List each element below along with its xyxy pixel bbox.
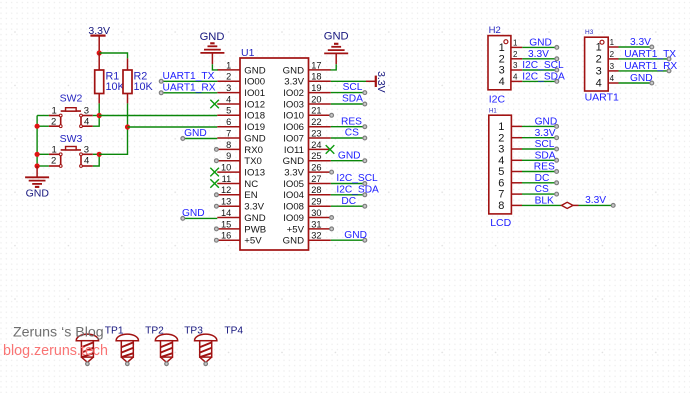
H2 pin1 indicator <box>504 40 508 44</box>
wire jumper to net 3.3V <box>579 204 616 208</box>
SW2 pin number 1 <box>52 106 57 117</box>
U1 pin 31 open end <box>330 227 334 231</box>
svg-text:GND: GND <box>244 213 265 224</box>
svg-text:UART1_TX: UART1_TX <box>624 49 676 60</box>
net label I2C_SCL (H2 pin 3) <box>522 60 564 71</box>
U1 pin 6 (IO19) <box>217 117 265 133</box>
svg-text:1: 1 <box>226 60 231 70</box>
svg-text:3: 3 <box>226 83 231 93</box>
wire U1 pin 22 to net RES <box>331 125 367 129</box>
U1 pin 12 (EN) <box>217 185 257 201</box>
svg-text:GND: GND <box>535 117 558 128</box>
svg-text:IO00: IO00 <box>244 77 265 88</box>
svg-text:7: 7 <box>226 128 231 138</box>
wire GND to U1 pin1 <box>212 64 217 70</box>
SW3 pin number 2 <box>51 155 56 166</box>
svg-text:17: 17 <box>311 60 321 70</box>
svg-text:3.3V: 3.3V <box>528 49 549 60</box>
svg-text:IO11: IO11 <box>284 145 304 156</box>
svg-text:RES: RES <box>341 116 362 127</box>
U1 pin 30 open end <box>330 216 334 220</box>
svg-text:1: 1 <box>610 38 615 47</box>
U1 pin 17 (GND) <box>283 60 331 76</box>
svg-text:2: 2 <box>498 132 504 144</box>
U1 pin 26 (3.3V) <box>284 163 331 179</box>
svg-text:IO18: IO18 <box>244 111 265 122</box>
net label I2C_SDA (U1 pin 28) <box>336 184 379 195</box>
svg-text:GND: GND <box>283 236 304 247</box>
H1 pin 1 <box>498 121 522 133</box>
svg-text:GND: GND <box>529 38 552 49</box>
designator TP2 <box>145 325 164 336</box>
wire net GND to U1 pin7 <box>181 137 217 141</box>
wire H2 pin 1 to net GND <box>522 46 558 50</box>
net label 3.3V (H1 pin 8) <box>585 195 606 206</box>
svg-text:GND: GND <box>182 208 205 219</box>
U1 pin 5 (IO18) <box>217 106 265 122</box>
U1 pin 1 (GND) <box>217 60 265 76</box>
U1 pin 26 open end <box>330 170 334 174</box>
U1 pin 16 (+5V) <box>217 231 262 247</box>
svg-text:32: 32 <box>311 231 321 241</box>
wire R2 bottom to node B <box>127 103 129 127</box>
svg-text:1: 1 <box>498 121 504 133</box>
svg-text:15: 15 <box>221 219 231 229</box>
wire SW2 pin4 riser <box>93 116 99 127</box>
wire H1 pin 3 to net SCL <box>522 147 558 151</box>
wire H3 pin 3 to net UART1_RX <box>619 69 671 73</box>
svg-text:IO08: IO08 <box>283 202 304 213</box>
svg-text:+5V: +5V <box>287 224 305 235</box>
svg-text:IO12: IO12 <box>244 99 265 110</box>
H1 pin 8 <box>498 200 522 212</box>
wire U1 pin 20 to net SDA <box>331 102 367 106</box>
net label UART1_TX (U1 pin2) <box>163 71 215 82</box>
U1 pin 9 open end <box>215 159 219 163</box>
svg-text:10: 10 <box>221 163 231 173</box>
svg-text:3: 3 <box>513 61 518 70</box>
svg-text:DC: DC <box>535 173 550 184</box>
label LCD (H1) <box>490 217 511 229</box>
wire net UART1_RX to U1 pin3 <box>159 91 217 95</box>
wire H1 pin 4 to net SDA <box>522 158 558 162</box>
svg-text:PWB: PWB <box>244 224 266 235</box>
designator TP1 <box>105 325 124 336</box>
jumper/diamond on BLK net <box>562 202 579 208</box>
U1 pin 4 (IO12) <box>217 94 265 110</box>
H1 pin 7 <box>498 189 522 201</box>
junction left bus / SW3 pin2 <box>35 163 40 168</box>
net label 3.3V (H1 pin 2) <box>535 128 556 139</box>
text blog.zeruns.tech <box>3 343 108 359</box>
wire H1 pin 6 to net DC <box>522 181 558 185</box>
svg-text:4: 4 <box>610 74 615 83</box>
svg-text:30: 30 <box>311 208 321 218</box>
svg-text:IO02: IO02 <box>283 88 304 99</box>
net label SDA (U1 pin 20) <box>342 94 363 105</box>
designator H1 <box>489 109 497 115</box>
svg-text:4: 4 <box>84 155 89 166</box>
svg-text:NC: NC <box>244 179 258 190</box>
svg-text:IO05: IO05 <box>283 179 304 190</box>
SW3 pin number 1 <box>52 144 57 155</box>
svg-text:8: 8 <box>226 140 231 150</box>
test point TP2 <box>116 334 138 366</box>
switch SW3 <box>49 147 93 168</box>
connector H2 body <box>488 36 511 90</box>
U1 pin 31 (+5V) <box>287 219 331 235</box>
svg-text:20: 20 <box>311 94 321 104</box>
wire H2 pin 3 to net I2C_SCL <box>522 68 558 72</box>
svg-text:29: 29 <box>311 197 321 207</box>
svg-text:23: 23 <box>311 128 321 138</box>
svg-text:26: 26 <box>311 163 321 173</box>
wire 3.3V node to R2 top <box>99 53 127 58</box>
net label I2C_SDA (H2 pin 4) <box>522 72 565 83</box>
net label SDA (H1 pin 4) <box>535 150 556 161</box>
svg-text:I2C_SCL: I2C_SCL <box>522 60 564 71</box>
svg-text:3: 3 <box>84 144 89 155</box>
U1 pin 23 (IO07) <box>283 128 331 144</box>
U1 pin 16 open end <box>215 238 219 242</box>
net label I2C_SCL (U1 pin 27) <box>336 173 378 184</box>
U1 pin 25 (GND) <box>283 151 331 167</box>
wire net UART1_TX to U1 pin2 <box>159 79 217 83</box>
net label GND (U1 pin7) <box>184 128 207 139</box>
wire node B to U1 pin6 <box>128 126 218 128</box>
svg-text:GND: GND <box>338 150 361 161</box>
svg-text:H3: H3 <box>585 29 594 36</box>
wire H2 pin 4 to net I2C_SDA <box>522 80 558 84</box>
svg-text:GND: GND <box>244 133 265 144</box>
svg-text:IO09: IO09 <box>283 213 304 224</box>
wire U1 pin 32 to net GND <box>331 238 367 242</box>
net label GND (U1 pin 25) <box>338 150 361 161</box>
svg-text:2: 2 <box>610 50 615 59</box>
svg-text:6: 6 <box>498 177 504 189</box>
net label UART1_RX (U1 pin3) <box>163 82 216 93</box>
svg-text:9: 9 <box>226 151 231 161</box>
svg-text:IO07: IO07 <box>283 133 304 144</box>
U1 pin 2 (IO00) <box>217 72 265 88</box>
wire SW3 pin1 to left bus <box>37 153 49 155</box>
svg-text:10K: 10K <box>134 81 154 93</box>
svg-text:SW3: SW3 <box>60 133 83 145</box>
svg-text:24: 24 <box>311 140 321 150</box>
svg-text:H2: H2 <box>489 25 501 36</box>
power flag 3.3V (U1 pin18) <box>366 71 387 93</box>
U1 pin 18 (3.3V) <box>284 72 331 88</box>
svg-text:14: 14 <box>221 208 231 218</box>
no-connect flag U1 pin 10 <box>210 168 219 177</box>
svg-text:1: 1 <box>52 144 57 155</box>
svg-text:2: 2 <box>499 53 505 65</box>
U1 pin 12 open end <box>215 193 219 197</box>
svg-text:7: 7 <box>498 189 504 201</box>
net label SCL (H1 pin 3) <box>535 139 555 150</box>
svg-text:5: 5 <box>226 106 231 116</box>
svg-text:2: 2 <box>51 117 56 128</box>
svg-text:8: 8 <box>498 200 504 212</box>
svg-text:RES: RES <box>534 162 555 173</box>
svg-text:LCD: LCD <box>490 217 511 229</box>
connector H3 body <box>585 37 609 91</box>
U1 pin 3 (IO01) <box>217 83 265 99</box>
svg-text:IO10: IO10 <box>283 111 304 122</box>
net label DC (H1 pin 6) <box>535 173 550 184</box>
svg-text:SCL: SCL <box>535 139 555 150</box>
svg-text:3.3V: 3.3V <box>284 77 304 88</box>
svg-text:UART1: UART1 <box>585 91 619 103</box>
no-connect flag U1 pin 4 <box>210 100 219 109</box>
net label 3.3V (H2 pin 2) <box>528 49 549 60</box>
svg-text:1: 1 <box>499 42 505 54</box>
H1 pin 6 <box>498 177 522 189</box>
svg-text:1: 1 <box>596 42 602 54</box>
svg-text:31: 31 <box>311 219 321 229</box>
U1 pin 21 open end <box>330 113 334 117</box>
net label BLK (H1 pin 8) <box>535 196 554 207</box>
svg-text:SW2: SW2 <box>60 92 83 104</box>
net label SCL (U1 pin 19) <box>343 82 363 93</box>
junction left bus / SW3 pin1 <box>35 152 40 157</box>
test point TP3 <box>155 334 177 366</box>
designator SW2 <box>60 92 83 104</box>
net label GND (H2 pin 1) <box>529 38 552 49</box>
U1 pin 20 (IO03) <box>283 94 331 110</box>
power flag 3.3V (top left) <box>88 25 110 53</box>
svg-text:6: 6 <box>226 117 231 127</box>
wire U1 pin 23 to net CS <box>331 136 367 140</box>
net label RES (H1 pin 5) <box>534 162 555 173</box>
H1 pin 3 <box>498 144 522 156</box>
wire SW2 pin2 to left bus <box>37 125 49 127</box>
H3 pin 1 <box>596 38 619 53</box>
svg-text:1: 1 <box>513 39 518 48</box>
svg-text:GND: GND <box>283 156 304 167</box>
wire H3 pin 2 to net UART1_TX <box>619 57 671 61</box>
svg-text:5: 5 <box>498 166 504 178</box>
svg-text:16: 16 <box>221 231 231 241</box>
svg-text:TX0: TX0 <box>244 156 262 167</box>
switch SW2 <box>49 108 93 128</box>
svg-text:3: 3 <box>596 66 602 78</box>
svg-text:27: 27 <box>311 174 321 184</box>
svg-text:3.3V: 3.3V <box>375 71 387 93</box>
wire U1 pin 27 to net I2C_SCL <box>331 182 367 186</box>
svg-text:GND: GND <box>630 73 653 84</box>
U1 pin 11 (NC) <box>217 174 258 190</box>
svg-text:SDA: SDA <box>342 94 363 105</box>
net label CS (U1 pin 23) <box>345 128 359 139</box>
U1 pin 8 open end <box>215 148 219 152</box>
svg-text:I2C: I2C <box>489 93 506 105</box>
U1 pin 29 (IO08) <box>283 197 331 213</box>
svg-text:3: 3 <box>498 144 504 156</box>
svg-text:13: 13 <box>221 197 231 207</box>
svg-text:3: 3 <box>499 65 505 77</box>
wire H1 pin 8 to jumper <box>522 204 562 206</box>
resistor R1 <box>95 53 104 103</box>
svg-text:+5V: +5V <box>244 236 262 247</box>
U1 pin 22 (IO06) <box>283 117 331 133</box>
net label UART1_RX (H3 pin 3) <box>624 61 677 72</box>
svg-text:CS: CS <box>535 184 549 195</box>
net label GND (U1 pin 32) <box>344 230 367 241</box>
wire U1 pin 28 to net I2C_SDA <box>331 193 367 197</box>
svg-text:3: 3 <box>610 62 615 71</box>
svg-text:18: 18 <box>311 72 321 82</box>
svg-text:21: 21 <box>311 106 321 116</box>
U1 pin 14 (GND) <box>217 208 265 224</box>
U1 pin 19 (IO02) <box>283 83 331 99</box>
designator TP4 <box>224 325 243 336</box>
test point TP1 <box>76 334 98 366</box>
no-connect flag U1 pin 11 <box>210 179 219 188</box>
svg-text:2: 2 <box>226 72 231 82</box>
svg-text:EN: EN <box>244 190 257 201</box>
wire SW3 pin4 riser <box>93 154 99 166</box>
svg-text:GND: GND <box>26 188 50 200</box>
SW3 pin number 3 <box>84 144 89 155</box>
label R2 <box>134 71 148 83</box>
resistor R2 <box>123 58 132 103</box>
svg-text:SDA: SDA <box>535 150 556 161</box>
net label 3.3V (H3 pin 1) <box>630 37 651 48</box>
svg-text:28: 28 <box>311 185 321 195</box>
svg-text:SCL: SCL <box>343 82 363 93</box>
net label CS (H1 pin 7) <box>535 184 549 195</box>
wire SW3 pin3 to node C <box>93 153 99 155</box>
junction node B (R2/U1 pin6) <box>125 124 130 129</box>
svg-text:4: 4 <box>513 73 518 82</box>
U1 pin 9 (TX0) <box>217 151 262 167</box>
svg-text:DC: DC <box>341 196 356 207</box>
svg-text:U1: U1 <box>241 47 255 59</box>
svg-text:I2C_SDA: I2C_SDA <box>522 72 565 83</box>
wire SW2 pin1 to left bus <box>37 115 49 117</box>
svg-text:22: 22 <box>311 117 321 127</box>
wire H2 pin 2 to net 3.3V <box>522 57 558 61</box>
U1 pin 15 (PWB) <box>217 219 266 235</box>
wire net GND to U1 pin14 <box>181 217 217 221</box>
designator TP3 <box>184 325 203 336</box>
svg-text:TP4: TP4 <box>224 325 243 336</box>
wire U1 pin17 to GND <box>330 64 336 70</box>
net label GND (H1 pin 1) <box>535 117 558 128</box>
svg-text:IO01: IO01 <box>244 88 265 99</box>
wire U1 pin 19 to net SCL <box>331 91 367 95</box>
wire U1 pin 29 to net DC <box>331 204 367 208</box>
svg-text:4: 4 <box>84 116 89 127</box>
svg-text:IO19: IO19 <box>244 122 265 133</box>
svg-text:RX0: RX0 <box>244 145 263 156</box>
U1 pin 32 (GND) <box>283 231 331 247</box>
svg-text:4: 4 <box>498 155 504 167</box>
wire H3 pin 4 to net GND <box>619 81 654 85</box>
designator H3 <box>585 29 594 36</box>
svg-text:1: 1 <box>52 106 57 117</box>
U1 pin 8 (RX0) <box>217 140 263 156</box>
SW2 pin number 3 <box>84 106 89 117</box>
designator SW3 <box>60 133 83 145</box>
svg-text:19: 19 <box>311 83 321 93</box>
svg-text:UART1_TX: UART1_TX <box>163 71 215 82</box>
wire H1 pin 1 to net GND <box>522 125 558 129</box>
IC U1 body <box>240 58 309 250</box>
U1 pin 15 open end <box>215 227 219 231</box>
svg-text:GND: GND <box>200 31 225 43</box>
ground GND (above U1 pin17) <box>324 31 349 65</box>
SW3 pin number 4 <box>84 155 89 166</box>
svg-text:3.3V: 3.3V <box>244 202 264 213</box>
svg-text:IO13: IO13 <box>244 168 265 179</box>
H1 pin 5 <box>498 166 522 178</box>
svg-text:IO04: IO04 <box>283 190 304 201</box>
svg-text:H1: H1 <box>489 109 497 115</box>
test point TP4 <box>195 334 217 366</box>
svg-text:4: 4 <box>226 94 231 104</box>
svg-text:UART1_RX: UART1_RX <box>624 61 677 72</box>
svg-text:4: 4 <box>596 78 602 90</box>
svg-text:IO03: IO03 <box>283 99 304 110</box>
svg-text:I2C_SCL: I2C_SCL <box>336 173 378 184</box>
U1 pin 24 (IO11) <box>284 140 331 156</box>
no-connect flag U1 pin 24 <box>326 145 335 154</box>
U1 pin 7 (GND) <box>217 128 265 144</box>
svg-text:CS: CS <box>345 128 359 139</box>
svg-text:12: 12 <box>221 185 231 195</box>
wire U1 pin18 to 3.3V <box>331 80 366 82</box>
U1 pin 21 (IO10) <box>283 106 331 122</box>
svg-text:2: 2 <box>51 155 56 166</box>
wire R1 bottom to node A <box>98 103 100 115</box>
svg-text:2: 2 <box>596 54 602 66</box>
H2 pin 3 <box>499 61 523 76</box>
svg-text:GND: GND <box>344 230 367 241</box>
svg-text:GND: GND <box>244 65 265 76</box>
value 10K (R1) <box>106 81 126 93</box>
wire U1 pin 25 to net GND <box>331 159 367 163</box>
U1 pin 10 (IO13) <box>217 163 265 179</box>
H2 pin 4 <box>499 73 523 88</box>
svg-text:2: 2 <box>513 50 518 59</box>
wire SW3 pin2 to left bus <box>37 165 49 167</box>
H1 pin 2 <box>498 132 522 144</box>
wire H1 pin 7 to net CS <box>522 192 558 196</box>
net label DC (U1 pin 29) <box>341 196 356 207</box>
text Zeruns 's Blog <box>13 325 104 341</box>
label I2C (H2) <box>489 93 506 105</box>
designator U1 <box>241 47 255 59</box>
wire H1 pin 2 to net 3.3V <box>522 136 558 140</box>
connector H1 body <box>489 115 512 214</box>
H3 pin 3 <box>596 62 619 77</box>
svg-text:11: 11 <box>222 174 232 184</box>
H3 pin1 indicator <box>600 40 604 44</box>
wire node A to U1 pin5 <box>99 115 217 117</box>
svg-text:25: 25 <box>311 151 321 161</box>
U1 pin 27 (IO05) <box>283 174 331 190</box>
SW2 pin number 2 <box>51 117 56 128</box>
H3 pin 4 <box>596 74 619 89</box>
svg-text:3: 3 <box>84 106 89 117</box>
wire SW2 pin3 to node A <box>93 115 99 117</box>
H2 pin 1 <box>499 39 523 54</box>
net label RES (U1 pin 22) <box>341 116 362 127</box>
wire H1 pin 5 to net RES <box>522 170 558 174</box>
svg-text:blog.zeruns.tech: blog.zeruns.tech <box>3 343 108 359</box>
